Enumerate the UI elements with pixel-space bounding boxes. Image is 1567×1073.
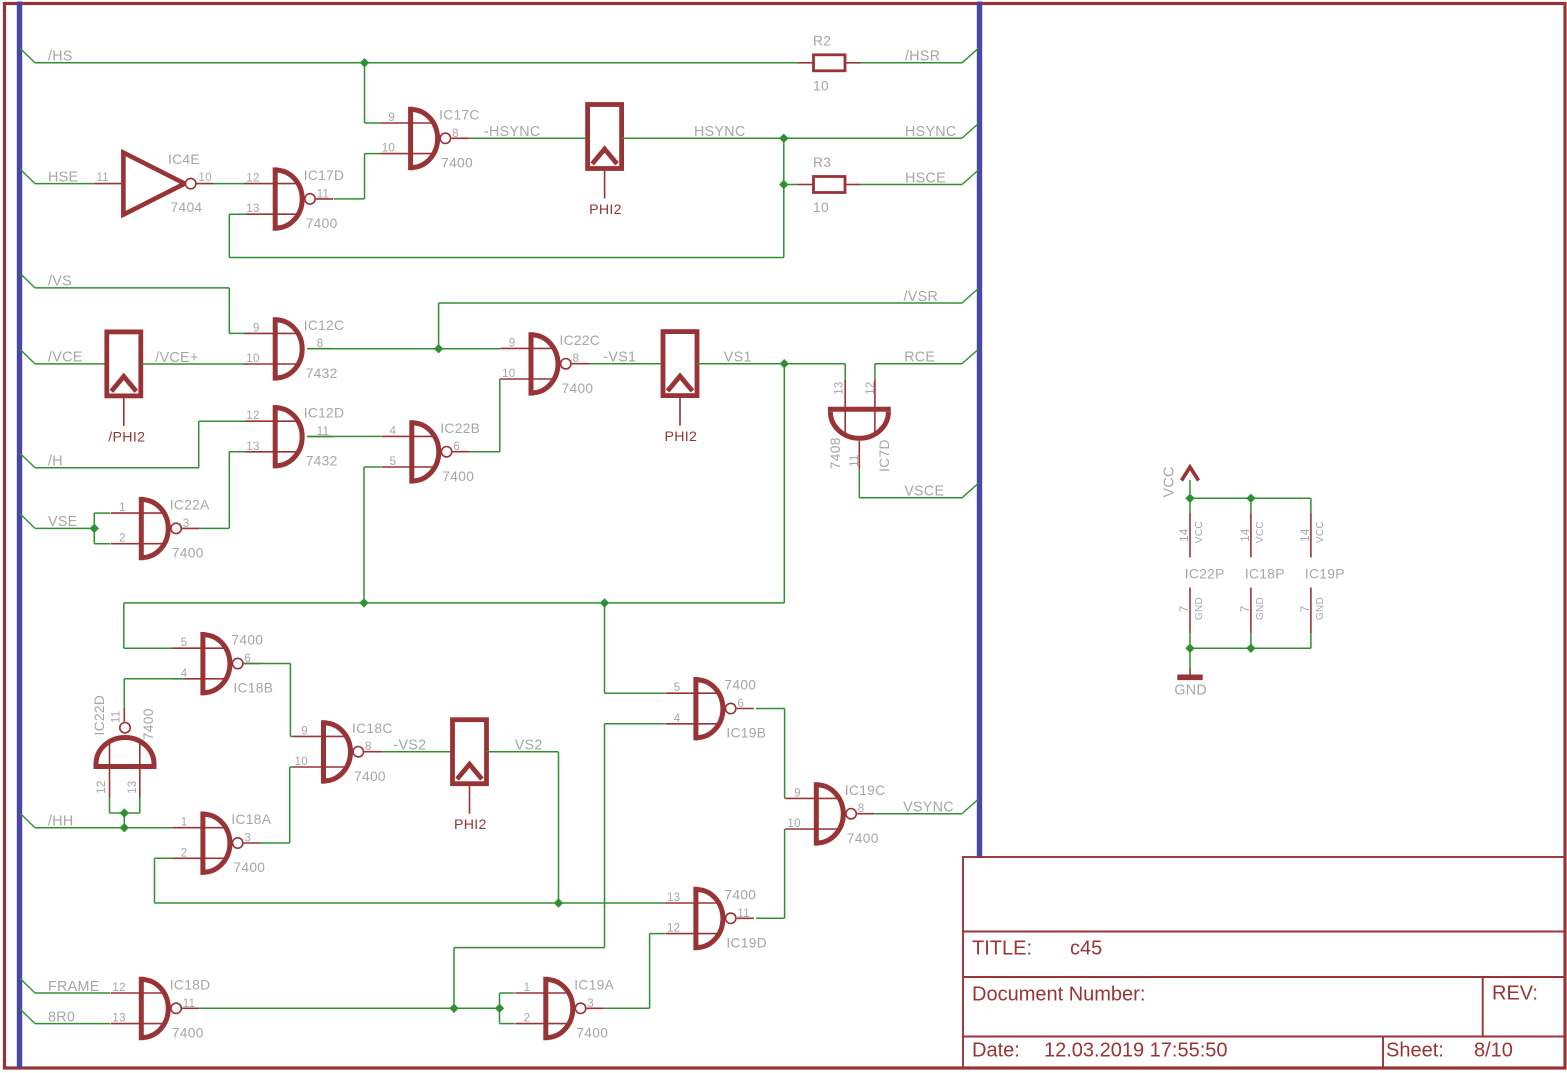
svg-text:12: 12 (246, 410, 259, 422)
junction rail-IC19Bpin5 (600, 598, 609, 607)
svg-text:IC12C: IC12C (304, 318, 345, 333)
wire VCC stub 1 (1189, 498, 1191, 513)
svg-text:IC17C: IC17C (439, 108, 480, 123)
wire net FRAME (35, 992, 110, 994)
and IC7D (828, 379, 892, 472)
svg-text:11: 11 (96, 172, 109, 184)
svg-text:/PHI2: /PHI2 (108, 429, 145, 445)
svg-text:13: 13 (834, 381, 846, 394)
pin 7 GND col2 (1250, 588, 1252, 634)
svg-text:12: 12 (112, 982, 125, 994)
wire to IC7D pin13 (844, 364, 846, 380)
junction VSE (90, 524, 99, 533)
wire IC7D out VSCE (858, 468, 860, 497)
bus entry VSE (20, 514, 35, 529)
svg-text:7400: 7400 (442, 469, 474, 484)
pin 14 VCC col1 (1189, 513, 1191, 557)
wire IC18A pin2 net (154, 858, 156, 903)
junction GND 1 (1185, 644, 1194, 653)
bus entry /HSR (962, 48, 979, 63)
svg-text:HSYNC: HSYNC (694, 124, 746, 140)
wire to IC19A pins (499, 993, 501, 1024)
svg-text:1: 1 (181, 817, 188, 829)
svg-text:7400: 7400 (441, 156, 473, 171)
svg-text:IC17D: IC17D (304, 168, 345, 183)
bus entry /VS (20, 273, 35, 288)
junction VS2-rail903 (554, 898, 563, 907)
svg-text:7: 7 (1300, 606, 1312, 613)
svg-text:10: 10 (813, 200, 829, 215)
svg-text:12: 12 (246, 173, 259, 185)
svg-text:/VCE+: /VCE+ (155, 350, 198, 366)
svg-text:3: 3 (244, 833, 251, 845)
svg-text:IC18B: IC18B (233, 681, 273, 696)
svg-text:7400: 7400 (172, 1026, 204, 1041)
svg-text:14: 14 (1300, 528, 1312, 542)
junction /HH (120, 823, 129, 832)
bus entry FRAME (20, 978, 35, 993)
svg-text:TITLE:: TITLE: (972, 938, 1032, 960)
wire GND rail (1190, 647, 1311, 649)
svg-text:IC18C: IC18C (352, 721, 393, 736)
resistor R3 (798, 155, 861, 215)
bus entry HSCE (962, 170, 979, 185)
or IC12C (245, 317, 345, 381)
svg-text:c45: c45 (1070, 938, 1102, 960)
wire IC12C out (307, 348, 500, 350)
svg-text:VCC: VCC (1315, 521, 1326, 543)
svg-text:10: 10 (787, 818, 800, 830)
wire /VSR (438, 303, 440, 349)
junction /VSR branch (434, 344, 443, 353)
svg-text:3: 3 (587, 998, 594, 1010)
wire IC22D out to IC18B pin4 (123, 679, 125, 708)
wire VS2 down (558, 752, 560, 903)
svg-text:2: 2 (524, 1013, 531, 1025)
svg-text:12: 12 (667, 923, 680, 935)
bus entry 8R0 (20, 1009, 35, 1024)
svg-text:REV:: REV: (1492, 983, 1538, 1005)
junction HSYNC (779, 134, 788, 143)
svg-text:14: 14 (1179, 528, 1191, 542)
svg-text:IC18A: IC18A (231, 812, 271, 827)
bus entry RCE (962, 349, 979, 364)
svg-text:11: 11 (110, 711, 122, 724)
wire IC22D pins to /HH (109, 798, 111, 813)
svg-text:IC19D: IC19D (726, 936, 767, 951)
inverter IC4E (95, 152, 214, 215)
wire IC12D out to IC22B pin4 (307, 435, 381, 437)
svg-text:13: 13 (246, 203, 259, 215)
wire IC19D out to IC19C pin10 (756, 917, 785, 919)
svg-text:6: 6 (737, 698, 744, 710)
svg-text:IC18D: IC18D (170, 978, 211, 993)
wire IC18C out -VS2 (382, 751, 453, 753)
svg-text:VCC: VCC (1162, 466, 1178, 497)
bus line left (17, 2, 22, 1069)
wire IC22C out -VS1 (589, 363, 663, 365)
wire RCE from IC7D pin12 (874, 364, 876, 380)
bus entry VSCE (962, 483, 979, 498)
nand IC19D (665, 887, 767, 951)
pin 7 GND col1 (1189, 588, 1191, 634)
svg-text:7400: 7400 (141, 708, 156, 740)
svg-text:VCC: VCC (1255, 521, 1266, 543)
svg-text:11: 11 (737, 908, 750, 920)
svg-text:PHI2: PHI2 (454, 817, 487, 833)
svg-text:7400: 7400 (562, 381, 594, 396)
svg-text:7404: 7404 (171, 200, 203, 215)
wire rail to IC18B pin5 (123, 603, 125, 648)
svg-text:-HSYNC: -HSYNC (484, 124, 541, 140)
wire net /VCE (35, 363, 107, 365)
resistor R2 (798, 33, 861, 93)
nand IC17D (245, 167, 345, 231)
svg-text:-VS2: -VS2 (393, 738, 426, 754)
wire VSE to IC22A pins (93, 513, 95, 544)
wire /VCE+ to IC12C pin10 (141, 363, 246, 365)
svg-text:3: 3 (183, 518, 190, 530)
bus entry VSYNC (962, 799, 979, 814)
wire GND stub 1 (1189, 633, 1191, 648)
svg-text:IC18P: IC18P (1245, 566, 1285, 581)
svg-text:4: 4 (181, 668, 188, 680)
wire IC18B out to IC18C pin9 (244, 663, 291, 665)
tag /PHI2 net /VCE (107, 332, 145, 446)
svg-text:13: 13 (112, 1013, 125, 1025)
nand IC17C (380, 107, 480, 171)
wire rail y903 (155, 902, 666, 904)
svg-text:7400: 7400 (724, 678, 756, 693)
wire net HSE (35, 183, 95, 185)
svg-text:10: 10 (295, 756, 308, 768)
svg-text:8: 8 (858, 803, 865, 815)
supply VCC arrow (1162, 466, 1199, 497)
svg-text:IC12D: IC12D (304, 406, 345, 421)
svg-text:4: 4 (390, 425, 397, 437)
svg-text:IC22D: IC22D (92, 695, 107, 736)
nand IC18A (172, 812, 271, 876)
wire net /HH (35, 827, 172, 829)
svg-text:10: 10 (502, 368, 515, 380)
svg-text:10: 10 (246, 353, 259, 365)
nand IC18D (111, 977, 211, 1041)
svg-text:13: 13 (127, 780, 139, 793)
wire feedback to IC17D pin13 (229, 257, 784, 259)
svg-text:5: 5 (674, 682, 681, 694)
bus entry HSE (20, 169, 35, 184)
svg-text:VS1: VS1 (724, 350, 752, 366)
svg-text:6: 6 (453, 441, 460, 453)
svg-text:7400: 7400 (231, 633, 263, 648)
ground GND symbol (1174, 668, 1207, 699)
svg-text:7: 7 (1240, 606, 1252, 613)
wire IC17D out to IC17C pin10 (334, 198, 365, 200)
svg-text:12: 12 (865, 381, 877, 394)
wire IC22B pin5 (364, 466, 381, 468)
svg-text:8/10: 8/10 (1474, 1040, 1513, 1062)
wire IC17C out -HSYNC (469, 137, 588, 139)
svg-text:IC22B: IC22B (440, 421, 480, 436)
wire IC19B out to IC19C pin9 (756, 708, 785, 710)
svg-text:1: 1 (524, 982, 531, 994)
wire GND stub 3 (1310, 633, 1312, 648)
svg-text:7400: 7400 (233, 860, 265, 875)
svg-text:2: 2 (181, 847, 188, 859)
svg-text:9: 9 (509, 337, 516, 349)
svg-text:7400: 7400 (724, 888, 756, 903)
svg-text:7400: 7400 (306, 216, 338, 231)
svg-text:Sheet:: Sheet: (1386, 1040, 1444, 1062)
junction IC18D out B (495, 1004, 504, 1013)
svg-text:R2: R2 (813, 33, 831, 48)
svg-text:7432: 7432 (306, 454, 338, 469)
svg-text:11: 11 (183, 998, 196, 1010)
svg-text:7: 7 (1179, 606, 1191, 613)
wire HSYNC feedback vertical (783, 138, 785, 257)
wire IC19C out VSYNC (874, 813, 962, 815)
tag PHI2 net VS2 (453, 720, 487, 834)
svg-text:2: 2 (119, 533, 126, 545)
wire to R3 (784, 184, 798, 186)
bus line right (977, 2, 982, 859)
wire rail to IC19B pin5 (604, 603, 606, 693)
wire VCC stub 3 (1310, 498, 1312, 513)
svg-text:GND: GND (1315, 597, 1326, 620)
junction GND 2 (1246, 644, 1255, 653)
nand IC19B (665, 677, 766, 741)
wire IC22B out to IC22C pin10 (470, 451, 500, 453)
bus entry /H (20, 453, 35, 468)
svg-text:IC4E: IC4E (168, 152, 200, 167)
svg-text:Date:: Date: (972, 1040, 1020, 1062)
wire VCC stub 2 (1250, 498, 1252, 513)
svg-text:1: 1 (119, 502, 126, 514)
nand IC19A (515, 977, 614, 1041)
wire net /H (35, 467, 199, 469)
svg-text:IC7D: IC7D (877, 439, 892, 472)
wire IC18D out (199, 1007, 499, 1009)
wire net 8R0 (35, 1023, 110, 1025)
wire GND down (1189, 648, 1191, 668)
nand IC19C (786, 782, 886, 846)
tag PHI2 net HSYNC (588, 105, 622, 219)
wire VCC rail (1189, 480, 1191, 498)
svg-text:8: 8 (452, 128, 459, 140)
wire IC19B pin4 net (605, 723, 666, 725)
pin 14 VCC col3 (1310, 513, 1312, 557)
nand IC22B (381, 420, 480, 484)
svg-text:5: 5 (181, 637, 188, 649)
wire HSYNC (622, 137, 962, 139)
wire R3 to HSCE (860, 184, 962, 186)
svg-text:7400: 7400 (847, 831, 879, 846)
bus entry /HH (20, 813, 35, 828)
pin 7 GND col3 (1310, 588, 1312, 634)
title block (963, 857, 1565, 1068)
svg-text:HSYNC: HSYNC (905, 124, 957, 140)
svg-text:GND: GND (1174, 683, 1207, 699)
wire VS1 (697, 363, 845, 365)
wire GND stub 2 (1250, 633, 1252, 648)
junction rail-IC22Bpin5 (359, 598, 368, 607)
svg-text:IC22A: IC22A (170, 498, 210, 513)
svg-text:10: 10 (813, 78, 829, 93)
svg-text:5: 5 (390, 456, 397, 468)
wire net /VS (35, 287, 229, 289)
svg-text:9: 9 (253, 322, 260, 334)
bus entry /VSR (962, 288, 979, 303)
wire /HS to IC17C pin9 (364, 63, 366, 123)
nand IC18B (172, 632, 273, 696)
svg-text:8: 8 (365, 741, 372, 753)
bus entry /VCE (20, 349, 35, 364)
wire IC18A out to IC18C pin10 (260, 842, 290, 844)
svg-text:14: 14 (1240, 528, 1252, 542)
junction /HS (360, 58, 369, 67)
wire IC4E out to IC17D pin12 (213, 183, 246, 185)
svg-text:IC22P: IC22P (1185, 566, 1225, 581)
wire VS2 (486, 751, 558, 753)
svg-text:7400: 7400 (354, 769, 386, 784)
nand IC22C (501, 332, 601, 396)
svg-text:9: 9 (388, 112, 395, 124)
svg-text:4: 4 (674, 713, 681, 725)
svg-text:10: 10 (199, 172, 212, 184)
svg-text:IC19B: IC19B (726, 726, 766, 741)
nand IC22D (92, 695, 157, 798)
junction VS1 (780, 359, 789, 368)
svg-text:GND: GND (1255, 597, 1266, 620)
nand IC18C (293, 720, 393, 784)
svg-text:11: 11 (317, 188, 330, 200)
svg-text:7400: 7400 (172, 546, 204, 561)
wire IC22A out to IC12D pin13 (199, 527, 229, 529)
bus entry /HS (20, 48, 35, 63)
svg-text:IC19C: IC19C (845, 783, 886, 798)
or IC12D (245, 405, 345, 469)
svg-text:R3: R3 (813, 155, 831, 170)
svg-text:IC19A: IC19A (574, 978, 614, 993)
pin 14 VCC col2 (1250, 513, 1252, 557)
svg-text:7432: 7432 (306, 366, 338, 381)
svg-text:GND: GND (1194, 597, 1205, 620)
svg-text:9: 9 (794, 787, 801, 799)
svg-text:11: 11 (849, 454, 861, 467)
wire long rail y603 (124, 602, 785, 604)
tag PHI2 net VS1 (663, 332, 697, 446)
junction VCC 1 (1185, 494, 1194, 503)
junction IC22D pins (120, 808, 129, 817)
svg-text:13: 13 (246, 441, 259, 453)
svg-text:-VS1: -VS1 (603, 350, 636, 366)
wire net /HS (35, 62, 798, 64)
svg-text:10: 10 (382, 143, 395, 155)
wire VS1 down to lower section (783, 364, 785, 603)
svg-text:PHI2: PHI2 (589, 202, 622, 218)
svg-text:12: 12 (96, 780, 108, 793)
svg-text:IC22C: IC22C (560, 333, 601, 348)
svg-text:8: 8 (573, 353, 580, 365)
junction IC18D out A (449, 1004, 458, 1013)
svg-text:7400: 7400 (576, 1026, 608, 1041)
nand IC22A (111, 497, 210, 561)
svg-text:VCC: VCC (1194, 521, 1205, 543)
svg-text:12.03.2019 17:55:50: 12.03.2019 17:55:50 (1044, 1040, 1228, 1062)
bus entry HSYNC (962, 124, 979, 139)
svg-text:Document Number:: Document Number: (972, 984, 1145, 1006)
svg-text:VS2: VS2 (515, 738, 543, 754)
wire IC19A out to IC19D pin12 (604, 1007, 650, 1009)
svg-text:9: 9 (301, 725, 308, 737)
svg-text:PHI2: PHI2 (665, 429, 698, 445)
svg-text:13: 13 (667, 892, 680, 904)
wire net VSE (35, 527, 94, 529)
svg-text:IC19P: IC19P (1305, 566, 1345, 581)
svg-text:7408: 7408 (828, 437, 843, 469)
junction VCC 2 (1246, 494, 1255, 503)
junction HSCE branch (779, 180, 788, 189)
